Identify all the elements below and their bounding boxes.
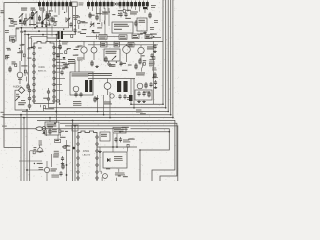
wire vertical x72 (72, 120, 74, 181)
label box BAL (119, 35, 127, 40)
capacitor C821 (150, 82, 152, 84)
label (154, 20, 158, 21)
resistor R553 (62, 163, 64, 170)
texture right top (153, 36, 154, 37)
label box SPK (113, 128, 126, 134)
wire (126, 53, 128, 62)
resistor R102 (24, 19, 26, 26)
transistor Q805 (137, 83, 143, 89)
IC U201 left pins (33, 46, 36, 49)
bus wire y120 to yoke (37, 120, 175, 181)
diode bridge D101 diamond (18, 87, 24, 93)
junction blob (72, 147, 75, 150)
pot arrow VR102 (26, 17, 30, 21)
wire (15, 28, 17, 36)
wire (20, 28, 22, 61)
transistor Q552 (38, 148, 43, 153)
resistor fill R105 (31, 17, 33, 20)
wire (33, 14, 35, 27)
texture under strip A (52, 18, 54, 21)
arrow (66, 18, 70, 22)
wire (45, 130, 47, 136)
transistor Q801 (91, 47, 97, 53)
capacitor C551 (62, 156, 64, 158)
label (48, 127, 54, 128)
wire drop (135, 6, 137, 10)
ground (144, 31, 146, 33)
wire drop (146, 6, 148, 10)
transistor Q553 (44, 167, 49, 172)
label H-2 (2, 126, 7, 127)
texture above IF box (125, 18, 131, 19)
label box (128, 43, 134, 48)
texture under IC1 (40, 105, 42, 108)
capacitor C121 (70, 22, 72, 24)
label VERT OUT (51, 169, 57, 170)
bus wire y118 (3, 117, 173, 119)
label H-1 (1, 112, 4, 113)
resistor R841 (148, 91, 150, 98)
texture mid parts2 (120, 63, 126, 64)
bus elbow junction (172, 117, 174, 119)
wire (66, 140, 68, 181)
wire (140, 54, 142, 60)
wire net D stepped (28, 36, 59, 38)
label SOUND OUTPUT (72, 74, 89, 75)
wire drop (91, 6, 93, 11)
box vert osc (45, 122, 59, 135)
wire net B (20, 6, 73, 31)
resistor R812 (105, 56, 107, 63)
pot arrow VR104 (42, 18, 46, 22)
capacitor C552 (60, 171, 62, 173)
label (39, 143, 43, 144)
texture bottom mid labels (60, 133, 62, 136)
wire (107, 79, 109, 83)
wire (48, 88, 50, 108)
label (54, 151, 59, 152)
capacitor C801 (120, 61, 122, 63)
wire pin lead (54, 53, 63, 55)
bus wire y115 (3, 114, 171, 116)
wire main B+ rail (50, 40, 163, 42)
svg-text:LA4220: LA4220 (83, 154, 91, 157)
wire noise gate (15, 90, 27, 181)
label IF (114, 24, 128, 25)
wire (51, 24, 53, 37)
box regulator (104, 49, 120, 61)
IC U201 right pins (53, 46, 56, 49)
label FROM TUNER (18, 102, 26, 103)
label block (68, 59, 75, 60)
wire y161 (19, 160, 42, 162)
wire (48, 11, 50, 26)
texture right mid parts (149, 59, 153, 60)
texture near left rail (5, 55, 9, 56)
wire (150, 37, 161, 39)
wire drop (66, 6, 68, 12)
bus wire y129 to CRT (5, 129, 169, 181)
pin circle (28, 105, 31, 108)
texture right of caps (127, 144, 129, 147)
ground (155, 86, 157, 88)
diode D201 (63, 57, 66, 59)
capacitor C562 (120, 137, 122, 139)
resistor R222 (65, 62, 67, 69)
junction (139, 149, 141, 151)
wire drop (62, 6, 64, 10)
bus wire y111 (22, 111, 168, 113)
wire (57, 135, 59, 141)
label VERT (47, 124, 57, 125)
pin circle (113, 3, 115, 5)
wire drop (142, 6, 144, 8)
capacitor C842 (143, 91, 145, 93)
wire (104, 8, 106, 35)
resistor R301 (89, 12, 91, 19)
wire (109, 92, 111, 118)
wire (116, 134, 118, 148)
svg-text:IC501: IC501 (83, 151, 90, 153)
wire (50, 154, 52, 167)
label R512 (52, 129, 57, 130)
label (6, 55, 9, 56)
transistor Q202 (81, 47, 87, 53)
capacitor C832 (124, 94, 126, 96)
wire drop (99, 6, 101, 15)
bus elbow junction (167, 111, 169, 113)
label R205 (12, 62, 16, 63)
wire (25, 14, 27, 27)
wire (133, 79, 135, 108)
diode D301 (92, 30, 95, 32)
resistor R401 (135, 20, 137, 27)
ground (96, 65, 98, 67)
resistor R190 ellipse (36, 127, 43, 131)
pin circle (57, 100, 60, 103)
bus wire V5 (172, 0, 174, 118)
capacitor C232 (80, 92, 82, 94)
transistor Q802 (123, 46, 131, 54)
coil L801 (129, 95, 133, 101)
wire (99, 8, 101, 22)
wire drop (139, 6, 141, 11)
wire Q553 collector (46, 161, 48, 167)
label (115, 173, 125, 174)
svg-text:IC201: IC201 (39, 67, 46, 69)
connector shell P102 (71, 2, 77, 6)
label (150, 27, 154, 28)
label corner (1, 10, 4, 11)
junction (103, 114, 105, 116)
label (34, 147, 37, 148)
resistor R403 (149, 12, 151, 19)
label PILOT (150, 34, 156, 35)
label PIN (136, 73, 145, 74)
resistor R815 (139, 58, 141, 65)
wire vertical x21 (20, 115, 22, 181)
wire (88, 78, 135, 80)
flyback T801 primary (117, 81, 121, 92)
texture right of IC1 (63, 64, 69, 65)
resistor fill R107 (19, 20, 21, 23)
wire left rail (4, 3, 38, 148)
texture bottom right parts (116, 178, 118, 182)
capacitor C122 (74, 28, 76, 30)
resistor R103 (39, 15, 41, 22)
wire net C (24, 6, 76, 34)
wire (83, 53, 85, 60)
wire (46, 22, 48, 41)
box filter (100, 132, 110, 141)
wire (97, 146, 137, 148)
junction (49, 117, 51, 119)
wire (99, 147, 101, 172)
capacitor C841 (138, 91, 140, 93)
label R805 (147, 47, 154, 48)
label box YOKE (121, 126, 131, 131)
wire drop (131, 6, 133, 8)
pot arrow VR101 (19, 13, 23, 17)
ground (99, 150, 101, 152)
ground (143, 100, 145, 102)
pin circle (47, 91, 50, 94)
label (45, 25, 51, 26)
resistor R101 (32, 11, 34, 18)
label (127, 97, 132, 98)
wire (19, 78, 21, 84)
label (39, 167, 43, 168)
label box (145, 35, 152, 39)
pin circle (28, 97, 31, 100)
transistor Q203 (73, 86, 79, 92)
label on bus (45, 108, 54, 109)
wire (103, 95, 105, 115)
wire (108, 8, 110, 26)
label REG (106, 51, 117, 52)
capacitor C561 (115, 137, 117, 139)
bus wire V3 (167, 0, 169, 112)
wire (49, 118, 51, 122)
wire long vertical (59, 41, 61, 104)
capacitor C223 (61, 70, 63, 72)
bus wire y123 to yoke (60, 123, 177, 181)
wire (27, 35, 29, 85)
label (143, 92, 150, 93)
label (151, 5, 156, 6)
resistor R811 (91, 60, 93, 67)
junction (152, 77, 154, 79)
transistor Q804 (104, 83, 111, 90)
wire drop (123, 6, 125, 10)
label VR101 (21, 8, 27, 9)
wire (112, 134, 114, 153)
capacitor C402 (125, 12, 127, 14)
label box TONE (99, 35, 107, 40)
junction (130, 103, 132, 105)
label pin1 (38, 48, 42, 49)
transformer T202 winding (85, 80, 88, 92)
label box 505 (55, 139, 61, 142)
capacitor C231 (75, 92, 77, 94)
wire (21, 14, 23, 27)
wire (126, 44, 128, 46)
capacitor C806 (155, 80, 157, 82)
wire (93, 41, 95, 47)
box damper (135, 90, 152, 100)
resistor R104 (47, 13, 49, 20)
label (123, 140, 129, 141)
label right bus (140, 113, 146, 114)
resistor R122 (51, 16, 53, 23)
wire drop (58, 6, 60, 15)
texture mid top parts (65, 17, 67, 22)
texture under strip B (97, 23, 100, 24)
resistor R502 (49, 128, 51, 135)
junction (109, 117, 111, 119)
label (149, 62, 155, 63)
label AFC (139, 20, 145, 21)
label (21, 32, 24, 33)
wire drop (39, 6, 41, 10)
resistor R221 (59, 44, 61, 51)
wire (78, 60, 80, 72)
bus elbow junction (162, 103, 164, 105)
wire drop (54, 6, 56, 12)
wire (144, 9, 146, 13)
capacitor C405 (154, 44, 156, 46)
wire pin lead (54, 59, 62, 61)
resistor R302 (96, 14, 98, 21)
connector strip P101 (38, 2, 41, 6)
wire pin lead (54, 65, 64, 67)
capacitor C831 (119, 94, 121, 96)
capacitor C221 (57, 53, 59, 55)
bus elbow junction (165, 107, 167, 109)
label HORIZONTAL DRIVE (88, 73, 112, 74)
wire net A (16, 6, 69, 28)
wire drop (88, 6, 90, 9)
wire lower rail (88, 44, 158, 46)
label box MAIN (10, 36, 17, 41)
bus wire V4 (170, 0, 172, 115)
label (130, 12, 138, 13)
label D101 (16, 94, 19, 95)
transformer T201 (58, 31, 64, 39)
IC U501 outline with top bumps (78, 131, 97, 182)
wire (41, 11, 43, 26)
junction (133, 107, 135, 109)
label (21, 100, 25, 101)
label (29, 24, 36, 25)
bus wire V1 (162, 0, 164, 104)
resistor R816 (135, 63, 137, 70)
diode D551 (43, 132, 46, 134)
resistor R121 (46, 13, 48, 20)
diode D561 (107, 158, 110, 162)
wire (97, 95, 99, 112)
label VR103 (40, 8, 45, 9)
label (136, 110, 141, 111)
label block (73, 101, 81, 102)
texture bottom mid parts (66, 150, 70, 151)
resistor fill R106 (41, 22, 43, 25)
label above (93, 32, 100, 33)
wire vertical x24 (23, 118, 25, 181)
wire vertical x30 (29, 151, 31, 181)
wire (107, 36, 119, 38)
wire drop (103, 6, 105, 9)
arrow VR801 (112, 56, 116, 60)
label block (114, 156, 122, 157)
label (51, 175, 59, 176)
wire drop (50, 6, 52, 10)
box degauss (103, 152, 127, 168)
label (152, 68, 156, 69)
wire long vertical (55, 35, 57, 124)
wire (83, 41, 85, 47)
IC U201 outline with top bumps (34, 42, 54, 104)
IC U501 right pins (96, 136, 99, 139)
pin circle (28, 89, 31, 92)
IC U501 left pins (77, 136, 80, 139)
pin circle (116, 3, 118, 5)
wire (19, 61, 21, 72)
wire (30, 150, 37, 152)
resistor R822 (154, 72, 156, 79)
connector strip P103 (87, 2, 90, 6)
bus elbow junction (170, 114, 172, 116)
resistor R206 (9, 66, 11, 73)
wire (130, 79, 132, 105)
bus wire y108 (49, 107, 166, 109)
label VR102 (31, 8, 36, 9)
wire (29, 14, 31, 27)
wire pin lead (54, 84, 62, 86)
wire drop (119, 6, 121, 8)
label R231 (77, 58, 84, 59)
bus wire y126 (65, 126, 178, 181)
texture left of IC1 (28, 58, 32, 59)
wire (74, 60, 76, 72)
bus wire y104 (131, 103, 163, 105)
bus wire V2 (165, 0, 167, 108)
label HOR OUT (104, 102, 111, 103)
wire (27, 169, 44, 171)
junction (54, 122, 56, 124)
svg-text:AN5132: AN5132 (38, 70, 47, 73)
resistor R208 (27, 83, 29, 90)
label (109, 64, 115, 65)
transistor Q551 (42, 127, 46, 131)
wire pin lead (54, 77, 65, 79)
wire (28, 47, 34, 49)
label box (101, 42, 108, 47)
wire drop (127, 6, 129, 11)
ground (62, 162, 64, 164)
flyback T801 secondary (123, 81, 127, 92)
wire stub (153, 77, 158, 79)
transistor Q806 (110, 94, 114, 98)
wire drop (42, 6, 44, 12)
label (5, 30, 9, 31)
junction block (143, 7, 147, 9)
wire (86, 36, 99, 38)
bus wire y132 (120, 131, 169, 133)
wire (29, 86, 31, 110)
wire vertical x75 (74, 126, 76, 181)
label (39, 141, 42, 142)
